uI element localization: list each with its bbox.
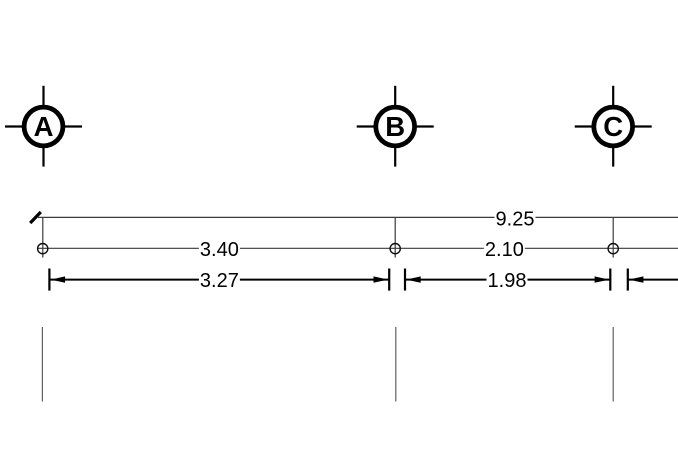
svg-text:C: C	[603, 111, 623, 142]
svg-text:B: B	[385, 111, 405, 142]
svg-text:3.27: 3.27	[200, 270, 239, 292]
svg-text:3.40: 3.40	[200, 239, 239, 261]
svg-text:A: A	[34, 111, 54, 142]
svg-text:1.98: 1.98	[488, 270, 527, 292]
svg-text:2.10: 2.10	[485, 239, 524, 261]
svg-text:9.25: 9.25	[496, 208, 535, 230]
